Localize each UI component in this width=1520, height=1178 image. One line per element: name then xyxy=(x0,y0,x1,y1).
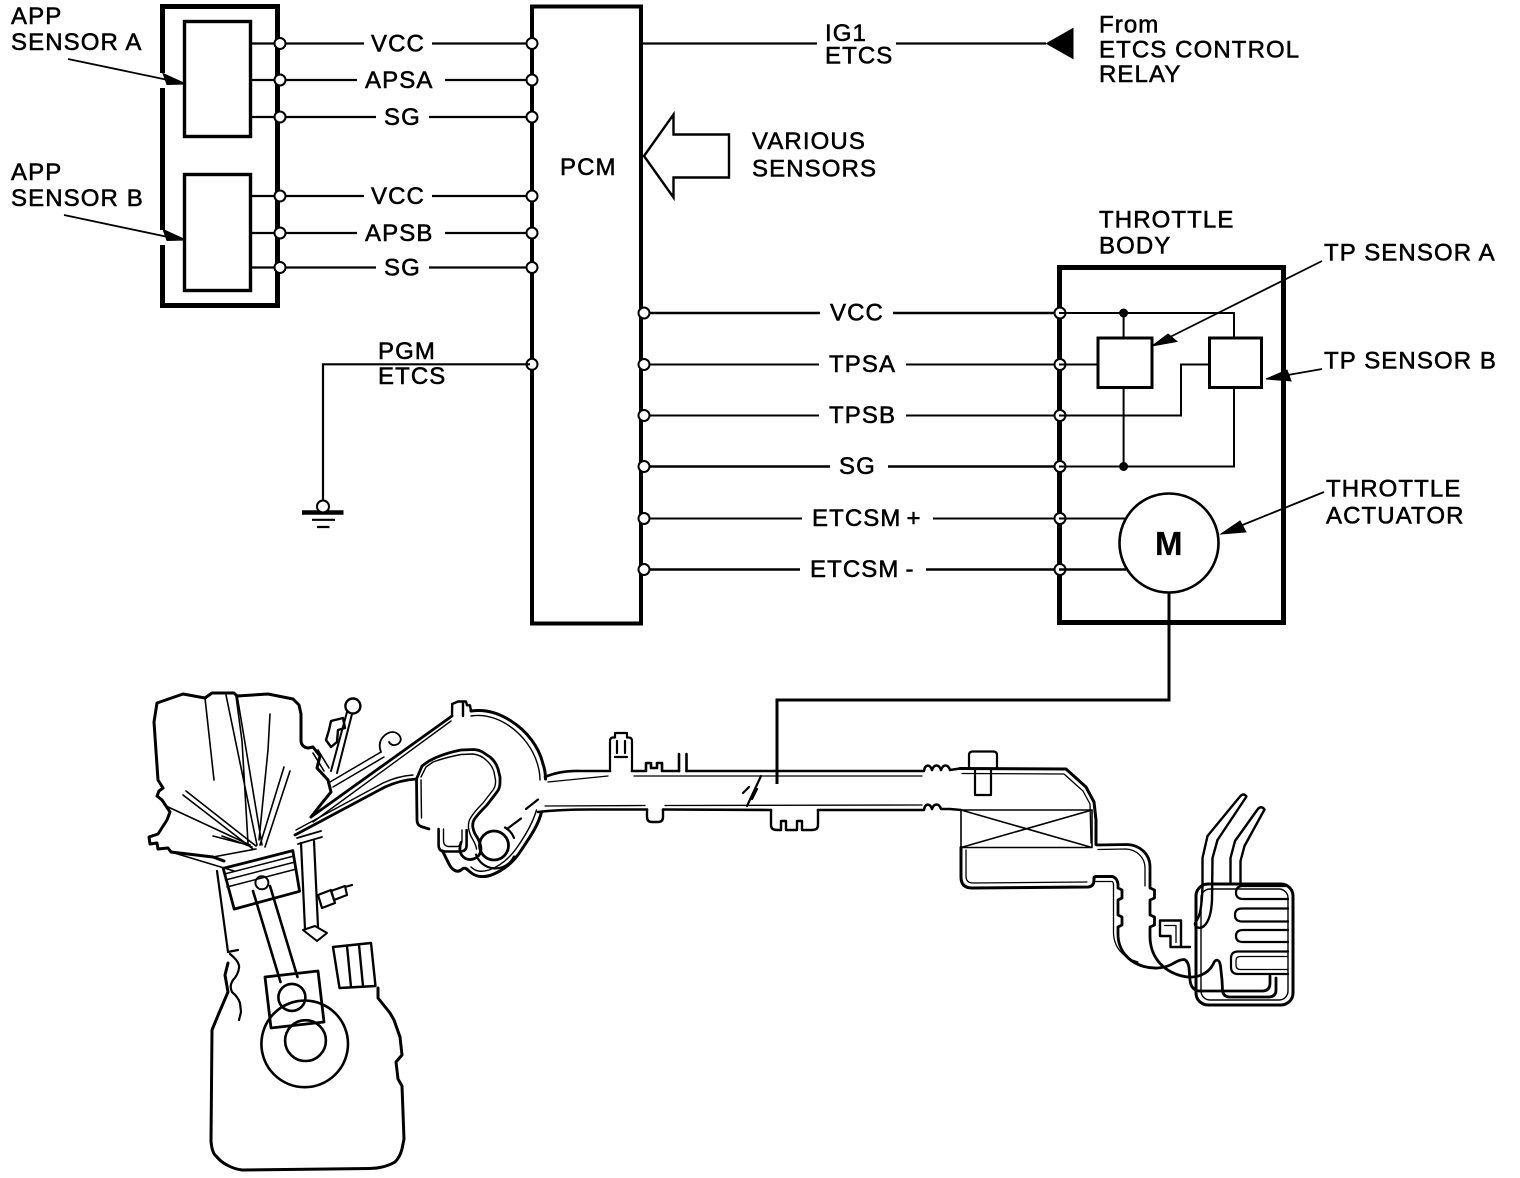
APP sensor assembly outer box xyxy=(163,7,278,306)
intake runner upper wall xyxy=(311,716,452,817)
APP sensor A inner box xyxy=(185,22,251,137)
dipstick ball xyxy=(345,699,360,714)
rod big end bearing xyxy=(278,984,305,1011)
duct bottom inner line xyxy=(545,805,922,806)
bracket II xyxy=(679,754,687,771)
duct top inner line xyxy=(548,776,922,782)
duct to air cleaner top wall xyxy=(545,763,960,777)
block waist contour xyxy=(230,954,241,1020)
wire APSB xyxy=(252,232,530,234)
net label IG1 ETCS xyxy=(825,20,893,70)
resonator fin 4 passage xyxy=(1231,952,1288,975)
mount fin xyxy=(333,943,376,988)
wire ETCSM - xyxy=(643,568,1059,570)
net label ETCSM + xyxy=(812,505,922,532)
label THROTTLE ACTUATOR xyxy=(1326,476,1465,530)
plenum chamber inner line xyxy=(421,754,496,849)
plenum chamber wall xyxy=(417,750,501,860)
terminal circles at throttle body left edge xyxy=(1055,308,1066,576)
duct bottom hanger xyxy=(647,810,663,823)
duct dashes xyxy=(507,800,538,830)
wire ETCSM- to motor xyxy=(1059,568,1126,570)
svg-text:SG: SG xyxy=(384,255,421,282)
svg-text:SG: SG xyxy=(384,104,421,131)
connecting rod xyxy=(253,886,298,982)
cylinder right wall xyxy=(301,841,318,929)
label APP SENSOR A xyxy=(11,3,143,56)
crank journal circle xyxy=(285,1020,326,1061)
distributor piece xyxy=(326,718,345,747)
tappet foot xyxy=(303,926,327,941)
resonator fin 1 xyxy=(1236,886,1288,899)
valve cover and cylinder head outline xyxy=(149,693,331,861)
pipe baffle G xyxy=(1160,921,1190,948)
air cleaner box bottom xyxy=(961,848,1112,889)
engine block outline xyxy=(211,963,404,1170)
APP sensor B inner box xyxy=(185,175,251,291)
terminal circles at APP box right edge xyxy=(275,38,286,273)
wire PGM ETCS xyxy=(323,364,530,501)
vent prong 2 xyxy=(1235,807,1265,846)
air cleaner inlet boss xyxy=(969,752,997,796)
vent prong 2 collar and base xyxy=(1231,841,1245,882)
vent prong 1 xyxy=(1208,795,1247,841)
svg-text:ETCSM+: ETCSM+ xyxy=(812,505,922,532)
crank web xyxy=(265,971,324,1028)
piston wrist pin xyxy=(255,876,268,889)
outlet pipe left wall xyxy=(1112,877,1270,992)
internal wire VCC to TP sensors xyxy=(1059,313,1234,338)
svg-text:APP: APP xyxy=(11,159,62,186)
net label APSB xyxy=(365,220,433,247)
net label TPSA xyxy=(829,351,896,378)
svg-text:ETCS: ETCS xyxy=(825,43,893,70)
resonator box xyxy=(1196,884,1293,1005)
outlet pipe outer inner line xyxy=(1098,849,1145,886)
internal wire TPSB to sensor B xyxy=(1059,365,1210,416)
wire VCC (APP A) xyxy=(252,42,530,44)
crankshaft counterweight circle xyxy=(261,1001,348,1088)
label TP SENSOR B xyxy=(1324,348,1497,375)
net label VCC xyxy=(371,31,425,58)
wire SG (APP B) xyxy=(252,266,530,268)
net label ETCSM - xyxy=(810,556,915,583)
leader arrow to throttle actuator xyxy=(1240,492,1324,526)
dipstick shaft xyxy=(331,712,352,773)
air cleaner crossed filter rect xyxy=(961,810,1092,848)
wire VCC (throttle) xyxy=(643,312,1059,314)
net label SG xyxy=(384,255,421,282)
svg-text:ETCSM-: ETCSM- xyxy=(810,556,915,583)
TP sensor A box xyxy=(1098,338,1152,388)
net label APSA xyxy=(365,67,433,94)
svg-text:SENSOR B: SENSOR B xyxy=(11,185,144,212)
svg-text:M: M xyxy=(1155,525,1183,562)
head deck slant lines xyxy=(166,806,256,871)
throttle actuator motor circle xyxy=(1120,494,1219,593)
intake and exhaust valve lines xyxy=(183,695,290,849)
mount bolt xyxy=(318,885,352,908)
arrowhead to ETCS control relay xyxy=(1047,29,1074,59)
throttle body box xyxy=(1060,268,1284,623)
leader arrow to APP sensor B xyxy=(64,215,168,237)
internal wire SG xyxy=(1059,388,1234,467)
leader arrow to TP sensor B xyxy=(1285,369,1322,376)
wire ETCSM + xyxy=(643,518,1059,520)
air cleaner box top inner line xyxy=(962,774,1091,844)
svg-text:From: From xyxy=(1099,12,1159,39)
net label VCC xyxy=(830,300,884,327)
svg-text:PCM: PCM xyxy=(560,154,617,181)
EGR pipe lines xyxy=(330,752,384,787)
vent prong 1 collar and base xyxy=(1195,836,1218,928)
svg-text:THROTTLE: THROTTLE xyxy=(1099,207,1234,234)
wire TPSB xyxy=(643,415,1059,417)
svg-text:VARIOUS: VARIOUS xyxy=(752,128,866,155)
svg-text:TPSA: TPSA xyxy=(829,351,896,378)
net label PGM ETCS xyxy=(378,338,446,390)
throttle flange bracket xyxy=(771,810,818,830)
resonator fin 3 xyxy=(1236,930,1288,942)
label PCM xyxy=(560,154,617,181)
svg-text:VCC: VCC xyxy=(371,183,425,210)
label VARIOUS SENSORS xyxy=(752,128,877,183)
intake air temp boss xyxy=(610,733,632,771)
svg-text:SG: SG xyxy=(839,453,876,480)
PCM box xyxy=(532,7,641,624)
resonator fin 2 xyxy=(1235,909,1288,922)
wire TPSA xyxy=(643,364,1059,366)
svg-text:TPSB: TPSB xyxy=(829,402,896,429)
outlet pipe outer wall xyxy=(1097,845,1276,998)
terminal circles at PCM right edge xyxy=(639,308,650,576)
svg-text:THROTTLE: THROTTLE xyxy=(1326,476,1461,503)
VARIOUS SENSORS block arrow xyxy=(644,115,729,198)
net label VCC xyxy=(371,183,425,210)
svg-text:PGM: PGM xyxy=(378,338,436,365)
cylinder left wall xyxy=(217,871,238,952)
pushrod lines xyxy=(313,750,329,771)
svg-text:VCC: VCC xyxy=(371,31,425,58)
throttle bore xyxy=(480,831,509,860)
label TP SENSOR A xyxy=(1324,240,1496,267)
duct to air cleaner bottom wall xyxy=(538,805,961,813)
intake runner lower wall xyxy=(295,779,417,835)
throttle valve plate xyxy=(743,776,761,806)
piston ring grooves xyxy=(225,856,297,887)
outlet pipe left inner line xyxy=(1112,882,1138,963)
TP sensor B box xyxy=(1210,338,1262,388)
throttle shaft boss xyxy=(439,829,467,852)
svg-text:APSB: APSB xyxy=(365,220,433,247)
wire IG1 ETCS xyxy=(643,42,1046,44)
svg-text:ETCS: ETCS xyxy=(378,363,446,390)
svg-text:RELAY: RELAY xyxy=(1099,61,1181,88)
svg-text:APSA: APSA xyxy=(365,67,433,94)
tappet top bars xyxy=(297,831,322,844)
wire from motor to throttle valve xyxy=(777,593,1169,785)
label APP SENSOR B xyxy=(11,159,144,212)
svg-text:VCC: VCC xyxy=(830,300,884,327)
svg-text:APP: APP xyxy=(11,3,62,30)
junction dot on SG xyxy=(1119,462,1128,471)
ground symbol xyxy=(302,510,344,515)
leader arrow to TP sensor A xyxy=(1170,261,1322,337)
plenum outer wall xyxy=(471,710,546,779)
air cleaner box bottom inner xyxy=(966,850,1111,883)
wire ETCSM+ to motor xyxy=(1059,518,1126,520)
wire SG (throttle) xyxy=(643,465,1059,467)
label From ETCS CONTROL RELAY xyxy=(1099,12,1300,89)
svg-text:ETCS CONTROL: ETCS CONTROL xyxy=(1099,37,1300,64)
svg-text:BODY: BODY xyxy=(1099,233,1171,260)
net label SG xyxy=(839,453,876,480)
svg-text:TP SENSOR A: TP SENSOR A xyxy=(1324,240,1496,267)
svg-text:ACTUATOR: ACTUATOR xyxy=(1326,503,1465,530)
throttle bore outer ring arcs xyxy=(476,855,514,869)
label M xyxy=(1155,525,1183,562)
junction dot on VCC xyxy=(1119,309,1128,318)
svg-text:TP SENSOR B: TP SENSOR B xyxy=(1324,348,1497,375)
resonator inner wall xyxy=(1201,889,1288,1000)
wire SG (APP A) xyxy=(252,116,530,118)
leader arrow to APP sensor A xyxy=(68,59,168,80)
svg-text:SENSORS: SENSORS xyxy=(752,156,877,183)
net label SG xyxy=(384,104,421,131)
internal wire TPSA to sensor A xyxy=(1059,364,1098,366)
wire APSA xyxy=(252,79,530,81)
EGR curl xyxy=(380,732,401,752)
wire VCC (APP B) xyxy=(252,195,530,197)
net label TPSB xyxy=(829,402,896,429)
plenum mounting tab xyxy=(452,702,471,717)
label THROTTLE BODY xyxy=(1099,207,1234,260)
plenum outer inner line xyxy=(471,715,540,871)
svg-text:SENSOR A: SENSOR A xyxy=(11,29,143,56)
piston xyxy=(223,851,299,910)
air cleaner box top xyxy=(960,769,1096,845)
terminal circles at PCM left edge xyxy=(527,38,538,370)
